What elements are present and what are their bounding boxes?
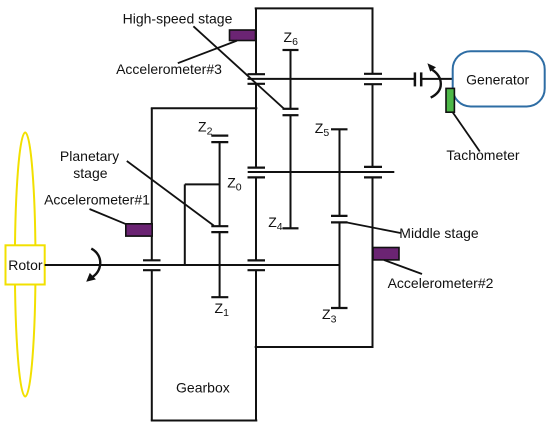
leader line planetary stage [127, 161, 214, 226]
leader line middle stage [347, 223, 401, 234]
wire rotor shaft [45, 264, 340, 266]
ticks of ring gear Z2 and planet column [211, 136, 228, 298]
svg-text:stage: stage [73, 165, 107, 181]
rotor rotation arrow [86, 249, 100, 282]
leader line accelerometer 2 [384, 260, 422, 274]
mesh on gearbox left edge [143, 260, 161, 270]
label planetary stage [60, 148, 119, 181]
leader line tachometer [453, 112, 480, 152]
rotor blade ellipse [15, 133, 36, 397]
high-speed housing box [255, 8, 374, 420]
svg-text:Accelerometer#2: Accelerometer#2 [388, 275, 494, 291]
svg-text:High-speed stage: High-speed stage [123, 10, 233, 26]
gearbox housing [151, 108, 257, 420]
svg-text:Gearbox: Gearbox [176, 379, 230, 395]
mesh pairs on shared housing edge [248, 74, 266, 270]
leader line high-speed stage [193, 26, 283, 108]
leader line accelerometer 1 [90, 209, 127, 224]
coupling [415, 72, 421, 86]
svg-text:Accelerometer#1: Accelerometer#1 [44, 191, 150, 207]
svg-text:Rotor: Rotor [8, 257, 43, 273]
rotor hub box [6, 245, 45, 284]
gear Z0 planet with gear Z1 sun line [219, 142, 221, 297]
svg-text:Generator: Generator [466, 72, 529, 88]
generator [453, 51, 545, 106]
svg-text:Tachometer: Tachometer [446, 147, 519, 163]
mesh pairs on right housing edge [364, 74, 382, 178]
gear Z5 with gear Z3 line [339, 129, 341, 308]
accelerometer 1 sensor [126, 224, 152, 236]
generator rotation arrow [427, 63, 440, 97]
wire high-speed shaft [248, 78, 453, 80]
wire intermediate shaft [248, 171, 395, 173]
accelerometer 3 sensor [230, 30, 256, 41]
gear Z6 with gear Z4 line [290, 50, 292, 228]
leader line accelerometer 3 [178, 41, 237, 64]
ticks of Z5/Z3 column [331, 129, 348, 308]
ticks of Z6/Z4 column [283, 50, 299, 228]
svg-text:Accelerometer#3: Accelerometer#3 [116, 61, 222, 77]
tachometer sensor [446, 88, 454, 112]
svg-text:Middle stage: Middle stage [399, 225, 479, 241]
accelerometer 2 sensor [373, 248, 399, 260]
svg-text:Planetary: Planetary [60, 148, 119, 164]
wire planet carrier [185, 184, 220, 265]
